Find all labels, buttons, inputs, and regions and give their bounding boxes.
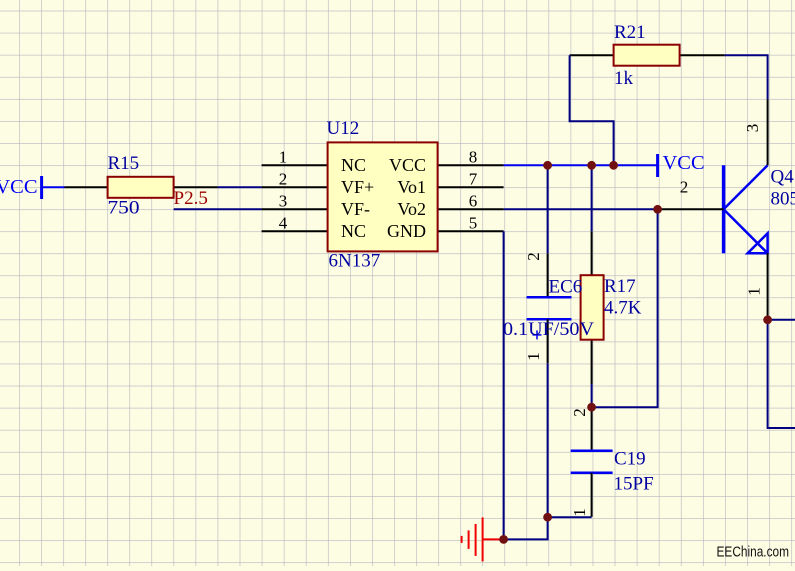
- svg-text:R21: R21: [614, 22, 646, 43]
- transistor Q4: [724, 165, 795, 253]
- wire pin6 to Q4 base: [504, 208, 658, 210]
- wire VCC to R15: [42, 186, 65, 188]
- svg-text:8050: 8050: [771, 189, 795, 210]
- IC U12 pins 8-5 (right): [438, 148, 504, 233]
- svg-text:0.1UF/50V: 0.1UF/50V: [503, 319, 594, 340]
- svg-text:U12: U12: [327, 118, 360, 139]
- svg-text:P2.5: P2.5: [174, 188, 208, 209]
- IC U12 pins 1-4 (left): [262, 148, 328, 233]
- capacitor C19: [570, 407, 654, 517]
- resistor R17: [581, 231, 642, 384]
- svg-text:NC: NC: [341, 155, 366, 175]
- wire R21 left step to VCC net: [570, 55, 614, 165]
- pin 3 of Q4: [767, 99, 769, 165]
- svg-text:3: 3: [279, 192, 288, 211]
- junction at ground symbol: [499, 535, 508, 544]
- svg-text:1: 1: [524, 352, 543, 361]
- svg-text:VF+: VF+: [341, 177, 374, 197]
- svg-text:1: 1: [570, 508, 589, 517]
- svg-text:Vo1: Vo1: [397, 177, 426, 197]
- svg-text:4.7K: 4.7K: [604, 297, 642, 318]
- junction on VCC net at EC6 branch: [543, 161, 552, 170]
- wire base node down: [592, 209, 658, 407]
- svg-text:Q4: Q4: [771, 166, 795, 187]
- svg-text:5: 5: [469, 214, 478, 233]
- power port VCC (right): [658, 152, 705, 177]
- wire ground net to C19: [548, 516, 592, 518]
- svg-text:15PF: 15PF: [614, 473, 654, 494]
- svg-text:2: 2: [524, 252, 543, 261]
- svg-text:NC: NC: [341, 221, 366, 241]
- svg-text:EEChina.com: EEChina.com: [717, 544, 790, 561]
- node P2.5 wire: [174, 208, 262, 210]
- svg-text:Vo2: Vo2: [397, 199, 426, 219]
- svg-text:R17: R17: [604, 276, 636, 297]
- svg-text:8: 8: [469, 148, 478, 167]
- wire emitter node right: [768, 319, 795, 321]
- wire VCC to EC6: [547, 165, 549, 253]
- svg-text:750: 750: [108, 198, 140, 219]
- svg-text:1: 1: [279, 148, 288, 167]
- wire emitter node down and right: [768, 320, 795, 428]
- svg-text:VCC: VCC: [389, 155, 426, 175]
- svg-text:6: 6: [469, 192, 478, 211]
- svg-text:GND: GND: [387, 221, 426, 241]
- svg-text:VCC: VCC: [663, 152, 705, 174]
- svg-text:1k: 1k: [614, 68, 634, 89]
- svg-text:VCC: VCC: [0, 176, 38, 198]
- junction on ground net at C19 branch: [543, 513, 552, 522]
- pin 2 of Q4: [658, 208, 724, 210]
- IC U12 body (6N137 optocoupler): [327, 118, 438, 271]
- svg-text:2: 2: [680, 178, 689, 197]
- wire R21 right to Q4 collector: [725, 55, 768, 99]
- svg-text:6N137: 6N137: [329, 250, 381, 271]
- svg-text:1: 1: [745, 287, 764, 296]
- capacitor EC6: [503, 252, 594, 363]
- wire R17 to node: [591, 384, 593, 407]
- junction at Q4 emitter node: [763, 315, 772, 324]
- svg-text:3: 3: [743, 124, 762, 133]
- power port VCC (left): [0, 176, 42, 199]
- svg-text:R15: R15: [108, 153, 140, 174]
- junction at Q4 base node: [653, 205, 662, 214]
- junction on VCC net at R21 branch: [609, 161, 618, 170]
- svg-text:4: 4: [279, 214, 288, 233]
- resistor R21: [570, 22, 725, 89]
- svg-text:2: 2: [570, 408, 589, 417]
- ground: [462, 517, 504, 561]
- svg-text:C19: C19: [614, 449, 646, 470]
- wire pin5 down to ground: [503, 231, 505, 539]
- svg-text:EC6: EC6: [549, 276, 583, 297]
- wire R15 to U12 pin2: [218, 186, 262, 188]
- junction at R17/C19 node: [587, 403, 596, 412]
- junction on VCC net at R17 branch: [587, 161, 596, 170]
- wire EC6 to ground net: [504, 363, 548, 539]
- svg-text:2: 2: [279, 170, 288, 189]
- svg-text:VF-: VF-: [341, 199, 370, 219]
- svg-text:7: 7: [469, 170, 478, 189]
- resistor R15: [65, 153, 218, 219]
- pin 1 of Q4: [767, 253, 769, 319]
- wire pin8 VCC net: [504, 164, 658, 166]
- wire VCC to R17: [591, 165, 593, 231]
